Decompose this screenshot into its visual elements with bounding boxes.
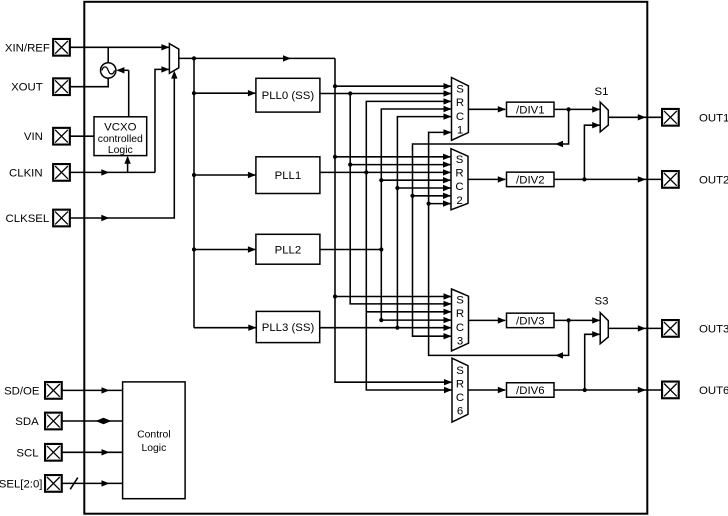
wire XIN/REF to input mux [70, 46, 169, 48]
svg-text:SD/OE: SD/OE [4, 385, 40, 397]
svg-text:R: R [456, 378, 464, 390]
wire PLL2 input [194, 249, 255, 251]
PLL3 box [256, 311, 319, 342]
wire PLL1 output to SRC2 in3 [320, 171, 451, 173]
wire PLL2 vertical down to SRC3 in4 [381, 250, 451, 321]
arrow into SRC2 in3 [443, 169, 451, 175]
wire DIV2 branch up to S1 in2 [584, 125, 599, 179]
arrow on DIV3 feedback [555, 352, 563, 358]
wire DIV6 branch up to S3 in2 [585, 334, 600, 390]
wire REF to SRC1 in1 [335, 85, 451, 87]
wire SCL to control logic [62, 451, 123, 453]
junction PLL2 vertical [379, 247, 383, 251]
junction PLL3 vertical [395, 326, 399, 330]
wire DIV3 fb to SRC2 in7 [429, 203, 451, 205]
pin pad OUT1 [662, 109, 679, 126]
wire XIN/REF branch down to oscillator [107, 47, 109, 63]
arrow into input mux in1 [161, 44, 169, 50]
divider DIV6 box [507, 383, 555, 398]
arrow to OUT1 [638, 114, 646, 120]
arrow into SRC3 in4 [444, 317, 452, 323]
svg-text:OUT6: OUT6 [699, 385, 728, 397]
junction PLL0 to SRC2 [348, 163, 352, 167]
arrow on reference wire [283, 55, 291, 61]
wire CLKIN branch up to VCXO box [127, 157, 129, 172]
arrow on CLKSEL wire [101, 215, 109, 221]
arrow into SRC3 in3 [444, 309, 452, 315]
junction DIV3 fb to SRC2 [427, 202, 431, 206]
arrow on SEL wire [102, 480, 110, 486]
svg-text:XIN/REF: XIN/REF [5, 42, 50, 54]
junction DIV6 output [583, 388, 587, 392]
PLL1 box [256, 157, 320, 194]
arrow into SRC6 in2 [444, 387, 452, 393]
arrow into S1 in2 [592, 122, 600, 128]
svg-text:Logic: Logic [141, 443, 166, 454]
wire PLL2 output [320, 249, 381, 251]
arrow into SRC2 in1 [443, 154, 451, 160]
svg-text:6: 6 [457, 406, 463, 418]
pin pad SDA [45, 413, 62, 430]
mux SRC3 [452, 289, 469, 351]
wire PLL3 output to SRC3 in5 [320, 327, 451, 329]
control logic box [123, 382, 186, 499]
junction PLL1 vertical [364, 170, 368, 174]
wire SRC2 output to DIV2 [468, 178, 505, 180]
arrow into SRC1 in6 [444, 129, 452, 135]
arrow into oscillator [116, 67, 124, 73]
wire PLL2 to SRC2 in4 [381, 179, 450, 181]
wire input mux output to REF vertical [179, 57, 335, 59]
wire PLL3 vertical up to SRC1 in5 [397, 117, 451, 328]
PLL0 box [256, 78, 320, 112]
arrow into SRC2 in2 [443, 161, 451, 167]
junction PLL2 to SRC2 [379, 178, 383, 182]
arrow into SRC3 in2 [444, 301, 452, 307]
wire PLL3 input [194, 327, 256, 329]
junction PLL2 corner [379, 318, 383, 322]
svg-text:/DIV3: /DIV3 [516, 315, 545, 327]
pin pad VIN [53, 128, 70, 145]
wire PLL1 vertical up to SRC1 in3 [366, 101, 451, 172]
pin pad OUT2 [662, 171, 679, 188]
wire DIV2 output to OUT2 [554, 178, 662, 180]
arrow into SRC3 in1 [444, 293, 452, 299]
arrow into PLL3 [248, 325, 256, 331]
wire REF to SRC2 in1 [335, 156, 450, 158]
wire VCXO control to oscillator [118, 69, 129, 71]
wire S3 output to OUT3 [608, 327, 662, 329]
svg-text:3: 3 [457, 335, 463, 347]
wire PLL1 to SRC3 in3 [366, 311, 451, 313]
junction PLL3 to SRC2 [395, 186, 399, 190]
svg-text:CLKSEL: CLKSEL [6, 213, 50, 225]
mux SRC2 [451, 149, 468, 210]
pin pad SCL [45, 444, 62, 461]
svg-text:Logic: Logic [108, 145, 133, 156]
arrow into SRC1 in1 [444, 83, 452, 89]
divider DIV3 box [507, 313, 555, 328]
junction DIV3 feedback [567, 318, 571, 322]
divider DIV1 box [507, 102, 555, 117]
svg-text:/DIV2: /DIV2 [516, 174, 545, 186]
wire XOUT to oscillator [70, 78, 108, 87]
junction PLL2 input [192, 247, 196, 251]
svg-text:PLL0 (SS): PLL0 (SS) [262, 90, 315, 102]
arrow into VCXO box bottom [124, 156, 130, 164]
svg-text:R: R [456, 308, 464, 320]
divider DIV2 box [507, 172, 555, 187]
wire SRC3 output to DIV3 [469, 319, 506, 321]
pin pad XOUT [53, 78, 70, 95]
wire PLL3 to SRC2 in5 [397, 187, 450, 189]
arrow into DIV6 [498, 387, 506, 393]
svg-text:/DIV6: /DIV6 [516, 385, 545, 397]
svg-text:SEL[2:0]: SEL[2:0] [0, 478, 42, 490]
wire DIV6 output to OUT6 [554, 389, 662, 391]
junction DIV2 output [582, 177, 586, 181]
arrow into SRC1 in3 [444, 98, 452, 104]
chip outline box [84, 2, 647, 514]
svg-text:PLL2: PLL2 [275, 244, 302, 256]
svg-text:S3: S3 [595, 296, 609, 308]
wire DIV1 output to S1 mux [554, 108, 600, 110]
wire CLKSEL to input mux select [70, 75, 174, 218]
wire PLL1 input [194, 174, 255, 176]
pin pad CLKIN [53, 164, 70, 181]
wire DIV3 output to S3 mux [554, 319, 600, 321]
wire PLL0 output to SRC1 in2 [320, 93, 451, 95]
wire S1 output to OUT1 [608, 116, 662, 118]
arrow into SRC1 in2 [444, 90, 452, 96]
oscillator X1 [101, 63, 116, 78]
mux SRC1 [452, 78, 469, 141]
arrow into SRC2 in6 [443, 193, 451, 199]
junction REF to SRC3 [333, 294, 337, 298]
svg-text:VCXO: VCXO [104, 122, 136, 134]
wire SD/OE to control logic [62, 389, 123, 391]
svg-text:C: C [456, 322, 464, 334]
svg-text:S1: S1 [595, 86, 609, 98]
arrow on SD/OE wire [102, 387, 110, 393]
svg-text:R: R [455, 168, 463, 180]
wire DIV1 fb to SRC2 in6 [413, 195, 451, 197]
arrow into PLL0 [248, 90, 256, 96]
arrow into input mux select [171, 71, 177, 79]
svg-text:C: C [456, 111, 464, 123]
pin pad OUT6 [662, 382, 679, 399]
svg-text:OUT1: OUT1 [699, 112, 728, 124]
arrow to OUT6 [638, 387, 646, 393]
arrow SDA bidirectional left [96, 418, 104, 424]
arrow into SRC6 in1 [444, 379, 452, 385]
arrow into SRC3 in6 [444, 333, 452, 339]
pin pad SEL[2:0] [45, 475, 62, 492]
arrow into SRC3 in5 [444, 325, 452, 331]
arrow into SRC2 in4 [443, 177, 451, 183]
wire VIN to VCXO box [70, 135, 94, 137]
bus slash on SEL wire [70, 478, 78, 490]
wire PLL2 vertical up to SRC1 in4 [381, 109, 451, 250]
svg-text:Control: Control [137, 430, 171, 441]
mux SRC6 [452, 358, 468, 422]
svg-text:XOUT: XOUT [11, 82, 43, 94]
arrow into SRC2 in7 [443, 200, 451, 206]
wire SRC6 output to DIV6 [468, 389, 505, 391]
arrow into S3 in1 [592, 317, 600, 323]
svg-text:S: S [456, 154, 464, 166]
svg-text:C: C [455, 181, 463, 193]
junction PLL1 input [192, 173, 196, 177]
svg-text:SDA: SDA [15, 416, 39, 428]
wire PLL0 input [194, 92, 255, 94]
svg-text:SCL: SCL [16, 447, 38, 459]
mux S3 [600, 313, 608, 344]
wire PLL input bus vertical [193, 58, 195, 327]
arrow into SRC2 in5 [443, 185, 451, 191]
arrow into SRC1 in5 [444, 113, 452, 119]
svg-text:/DIV1: /DIV1 [516, 104, 545, 116]
junction REF to SRC2 [333, 155, 337, 159]
junction PLL0 input [192, 91, 196, 95]
arrow into S3 in2 [592, 331, 600, 337]
mux S1 [600, 102, 608, 132]
junction DIV1 feedback [567, 107, 571, 111]
svg-text:S: S [456, 365, 464, 377]
pin pad XIN/REF [53, 39, 70, 56]
junction DIV1 fb to SRC2 [410, 194, 414, 198]
arrow SDA bidirectional right [104, 418, 112, 424]
svg-text:C: C [456, 392, 464, 404]
arrow into input mux in2 [161, 66, 169, 72]
wire PLL0 to SRC2 in2 [350, 164, 450, 166]
arrow into PLL1 [248, 172, 256, 178]
wire SRC1 output to DIV1 [468, 108, 505, 110]
svg-text:OUT3: OUT3 [699, 323, 728, 335]
arrow on SCL wire [102, 449, 110, 455]
svg-text:OUT2: OUT2 [699, 174, 728, 186]
PLL2 box [256, 234, 320, 264]
svg-text:CLKIN: CLKIN [9, 167, 43, 179]
wire SDA to control logic [62, 420, 123, 422]
wire SEL[2:0] to control logic [62, 482, 123, 484]
wire DIV3 feedback up to SRC1 in6 [429, 132, 569, 355]
pin pad CLKSEL [53, 210, 70, 227]
wire REF vertical distribution [335, 58, 451, 382]
arrow to OUT2 [638, 176, 646, 182]
arrow into SRC1 in4 [444, 106, 452, 112]
svg-text:R: R [456, 97, 464, 109]
wire REF to SRC3 in1 [335, 296, 451, 298]
wire CLKIN up to input mux in2 [155, 69, 169, 172]
arrow on DIV1 feedback [555, 141, 563, 147]
arrow on CLKIN wire [101, 169, 109, 175]
svg-text:S: S [456, 295, 464, 307]
wire PLL1 vertical down to SRC6 in2 [366, 172, 451, 390]
pin pad OUT3 [662, 320, 679, 337]
arrow into DIV1 [498, 106, 506, 112]
wire CLKIN [70, 171, 155, 173]
junction PLL bus [192, 56, 196, 60]
svg-text:PLL3 (SS): PLL3 (SS) [262, 322, 315, 334]
arrow into S1 in1 [592, 106, 600, 112]
svg-text:PLL1: PLL1 [275, 170, 302, 182]
wire PLL0 vertical to SRC3 in2 [350, 94, 451, 304]
arrow to OUT3 [638, 325, 646, 331]
junction PLL0 drop [348, 91, 352, 95]
VCXO controlled Logic box [94, 117, 147, 156]
svg-text:2: 2 [456, 195, 462, 207]
svg-text:1: 1 [457, 124, 463, 136]
arrow into PLL2 [248, 246, 256, 252]
svg-text:S: S [456, 84, 464, 96]
wire VCXO box to oscillator vertical [128, 70, 130, 117]
svg-text:controlled: controlled [98, 134, 143, 145]
input mux [169, 44, 178, 74]
wire DIV1 feedback down to SRC3 in6 [413, 109, 569, 336]
arrow into DIV3 [498, 317, 506, 323]
arrow into DIV2 [498, 176, 506, 182]
pin pad SD/OE [45, 382, 62, 399]
junction REF to SRC1 [333, 84, 337, 88]
svg-text:VIN: VIN [24, 131, 43, 143]
